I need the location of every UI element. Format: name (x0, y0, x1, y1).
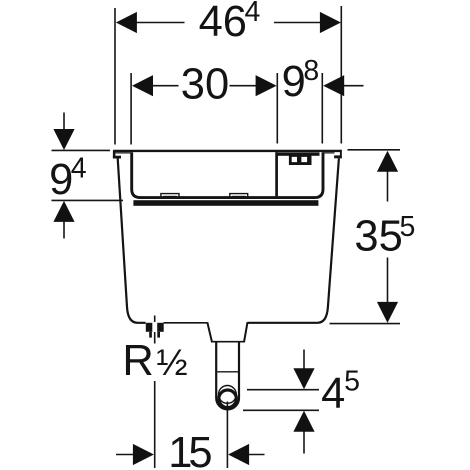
dim 30 extension line left (130, 73, 132, 145)
svg-text:35: 35 (354, 213, 402, 261)
dim 46.4 arrowhead right (320, 12, 341, 33)
dim 30 arrowhead left (132, 75, 153, 96)
lid clip left inner bar (163, 196, 177, 199)
lid right hook foot (334, 155, 342, 158)
svg-text:4: 4 (71, 153, 87, 185)
svg-text:9: 9 (49, 156, 73, 204)
dim 35.5 top arrow shaft (387, 170, 389, 202)
dim 4.5 bottom reference line (243, 409, 319, 411)
elbow outlet rim (thick circle) (219, 390, 237, 408)
svg-text:5: 5 (400, 211, 416, 243)
dim 46.4 arrowhead left (116, 12, 137, 33)
svg-text:9: 9 (282, 58, 306, 106)
dim 4.5 arrowhead bottom (points up) (293, 411, 314, 432)
inlet fitting left nut (146, 323, 153, 332)
dim 15 arrowhead right (points left) (228, 444, 249, 465)
flush pipe collar bottom (211, 341, 245, 343)
dim 9.4 bottom arrow shaft (63, 221, 65, 239)
dim 30 dimension line right segment (230, 85, 258, 87)
svg-text:4: 4 (321, 370, 345, 418)
dim 9.4 arrowhead top (points down) (53, 129, 74, 150)
dim 30/9.8 arrowhead middle (points right) (256, 75, 277, 96)
cistern lid top line (113, 150, 342, 152)
dim 9.8 extension line right (321, 73, 323, 144)
internal shelf bar (133, 200, 318, 206)
flush pipe socket chord (217, 371, 238, 373)
lid clip right inner bar (232, 196, 246, 199)
dim 15 arrowhead left (points right) (133, 444, 154, 465)
cistern left wall (118, 158, 146, 322)
dim 9.4 bottom reference line (52, 199, 124, 201)
dim 46.4 dimension line left segment (136, 22, 185, 24)
svg-text:5: 5 (344, 366, 360, 398)
lid right hook vertical (340, 150, 342, 159)
dim 4.5 top reference line (247, 389, 319, 391)
lid underline left ledge (115, 152, 130, 153)
svg-text:15: 15 (168, 429, 211, 470)
flush pipe outer U profile (216, 342, 239, 410)
lid clip right (230, 194, 248, 199)
svg-text:46: 46 (199, 0, 247, 46)
dim 35.5 bottom arrow shaft (387, 258, 389, 304)
dim 9.4 top reference line (52, 149, 111, 151)
recess divider (275, 152, 278, 196)
flush pipe collar right (244, 322, 247, 342)
flush pipe collar left (207, 322, 212, 342)
dim 15 dimension line right tail (248, 454, 265, 456)
dim 9.4 arrowhead bottom (points up) (53, 201, 74, 222)
lid underline right ledge (323, 152, 335, 153)
lid left hook foot (113, 156, 121, 159)
dim 4.5 arrowhead top (points down) (293, 368, 314, 389)
inlet centerline dash mid (154, 332, 156, 344)
dim 30/9.8 shared extension line (276, 73, 278, 144)
lid left hook vertical (113, 151, 116, 159)
under-lid bar (right compartment) (276, 152, 319, 155)
dim 46.4 extension line left (114, 8, 116, 145)
svg-text:R: R (122, 337, 153, 385)
dim 35.5 arrowhead bottom (points down) (377, 302, 398, 323)
svg-text:½: ½ (156, 341, 187, 383)
inlet centerline extension to dim 15 (154, 381, 156, 468)
cistern right wall (248, 158, 339, 322)
elbow back rim (thin circle) (219, 386, 237, 404)
dim 9.8 outside tail right (343, 85, 364, 87)
valve box outline (two windows) (289, 154, 312, 165)
inlet fitting left stub (149, 332, 152, 338)
dim 35.5 top reference line (348, 149, 401, 151)
flushpipe centerline extension to dim 15 (226, 402, 228, 469)
svg-text:30: 30 (181, 60, 229, 108)
svg-text:4: 4 (245, 0, 261, 28)
dim 4.5 bottom arrow shaft (303, 431, 305, 454)
inlet fitting right nut (157, 323, 164, 332)
inlet fitting right stub (157, 332, 160, 338)
dim 46.4 dimension line right segment (274, 22, 321, 24)
dim 30 dimension line left segment (152, 85, 179, 87)
lid clip left (161, 194, 179, 199)
dim 4.5 top arrow shaft (303, 350, 305, 371)
cistern bottom line left of flush pipe (164, 322, 208, 324)
inner recess rim (132, 152, 323, 197)
dim 35.5 bottom reference line (330, 323, 401, 325)
inlet centerline dash upper (154, 316, 156, 323)
dim 9.4 top arrow shaft (63, 113, 65, 132)
dim 46.4 extension line right (340, 6, 342, 144)
dim 15 dimension line left tail (116, 454, 134, 456)
dim 35.5 arrowhead top (points up) (377, 151, 398, 172)
svg-text:8: 8 (303, 55, 319, 87)
dim 9.8 arrowhead right (points left) (323, 75, 344, 96)
